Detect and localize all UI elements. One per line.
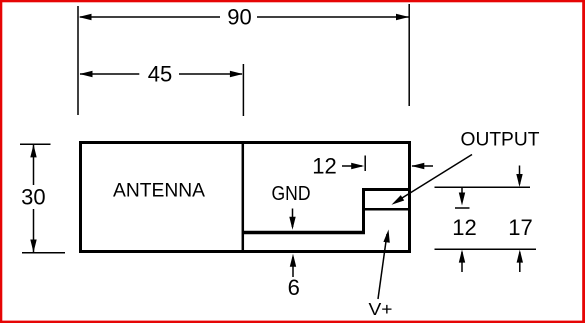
svg-text:12: 12 — [312, 154, 336, 179]
svg-text:30: 30 — [21, 185, 45, 210]
svg-text:12: 12 — [452, 215, 476, 240]
svg-text:ANTENNA: ANTENNA — [113, 180, 205, 202]
svg-text:GND: GND — [272, 182, 311, 205]
svg-text:90: 90 — [227, 5, 251, 30]
svg-text:6: 6 — [288, 275, 300, 300]
svg-text:17: 17 — [508, 215, 532, 240]
svg-text:V+: V+ — [369, 299, 393, 319]
svg-text:OUTPUT: OUTPUT — [461, 129, 540, 151]
svg-text:45: 45 — [148, 62, 172, 87]
